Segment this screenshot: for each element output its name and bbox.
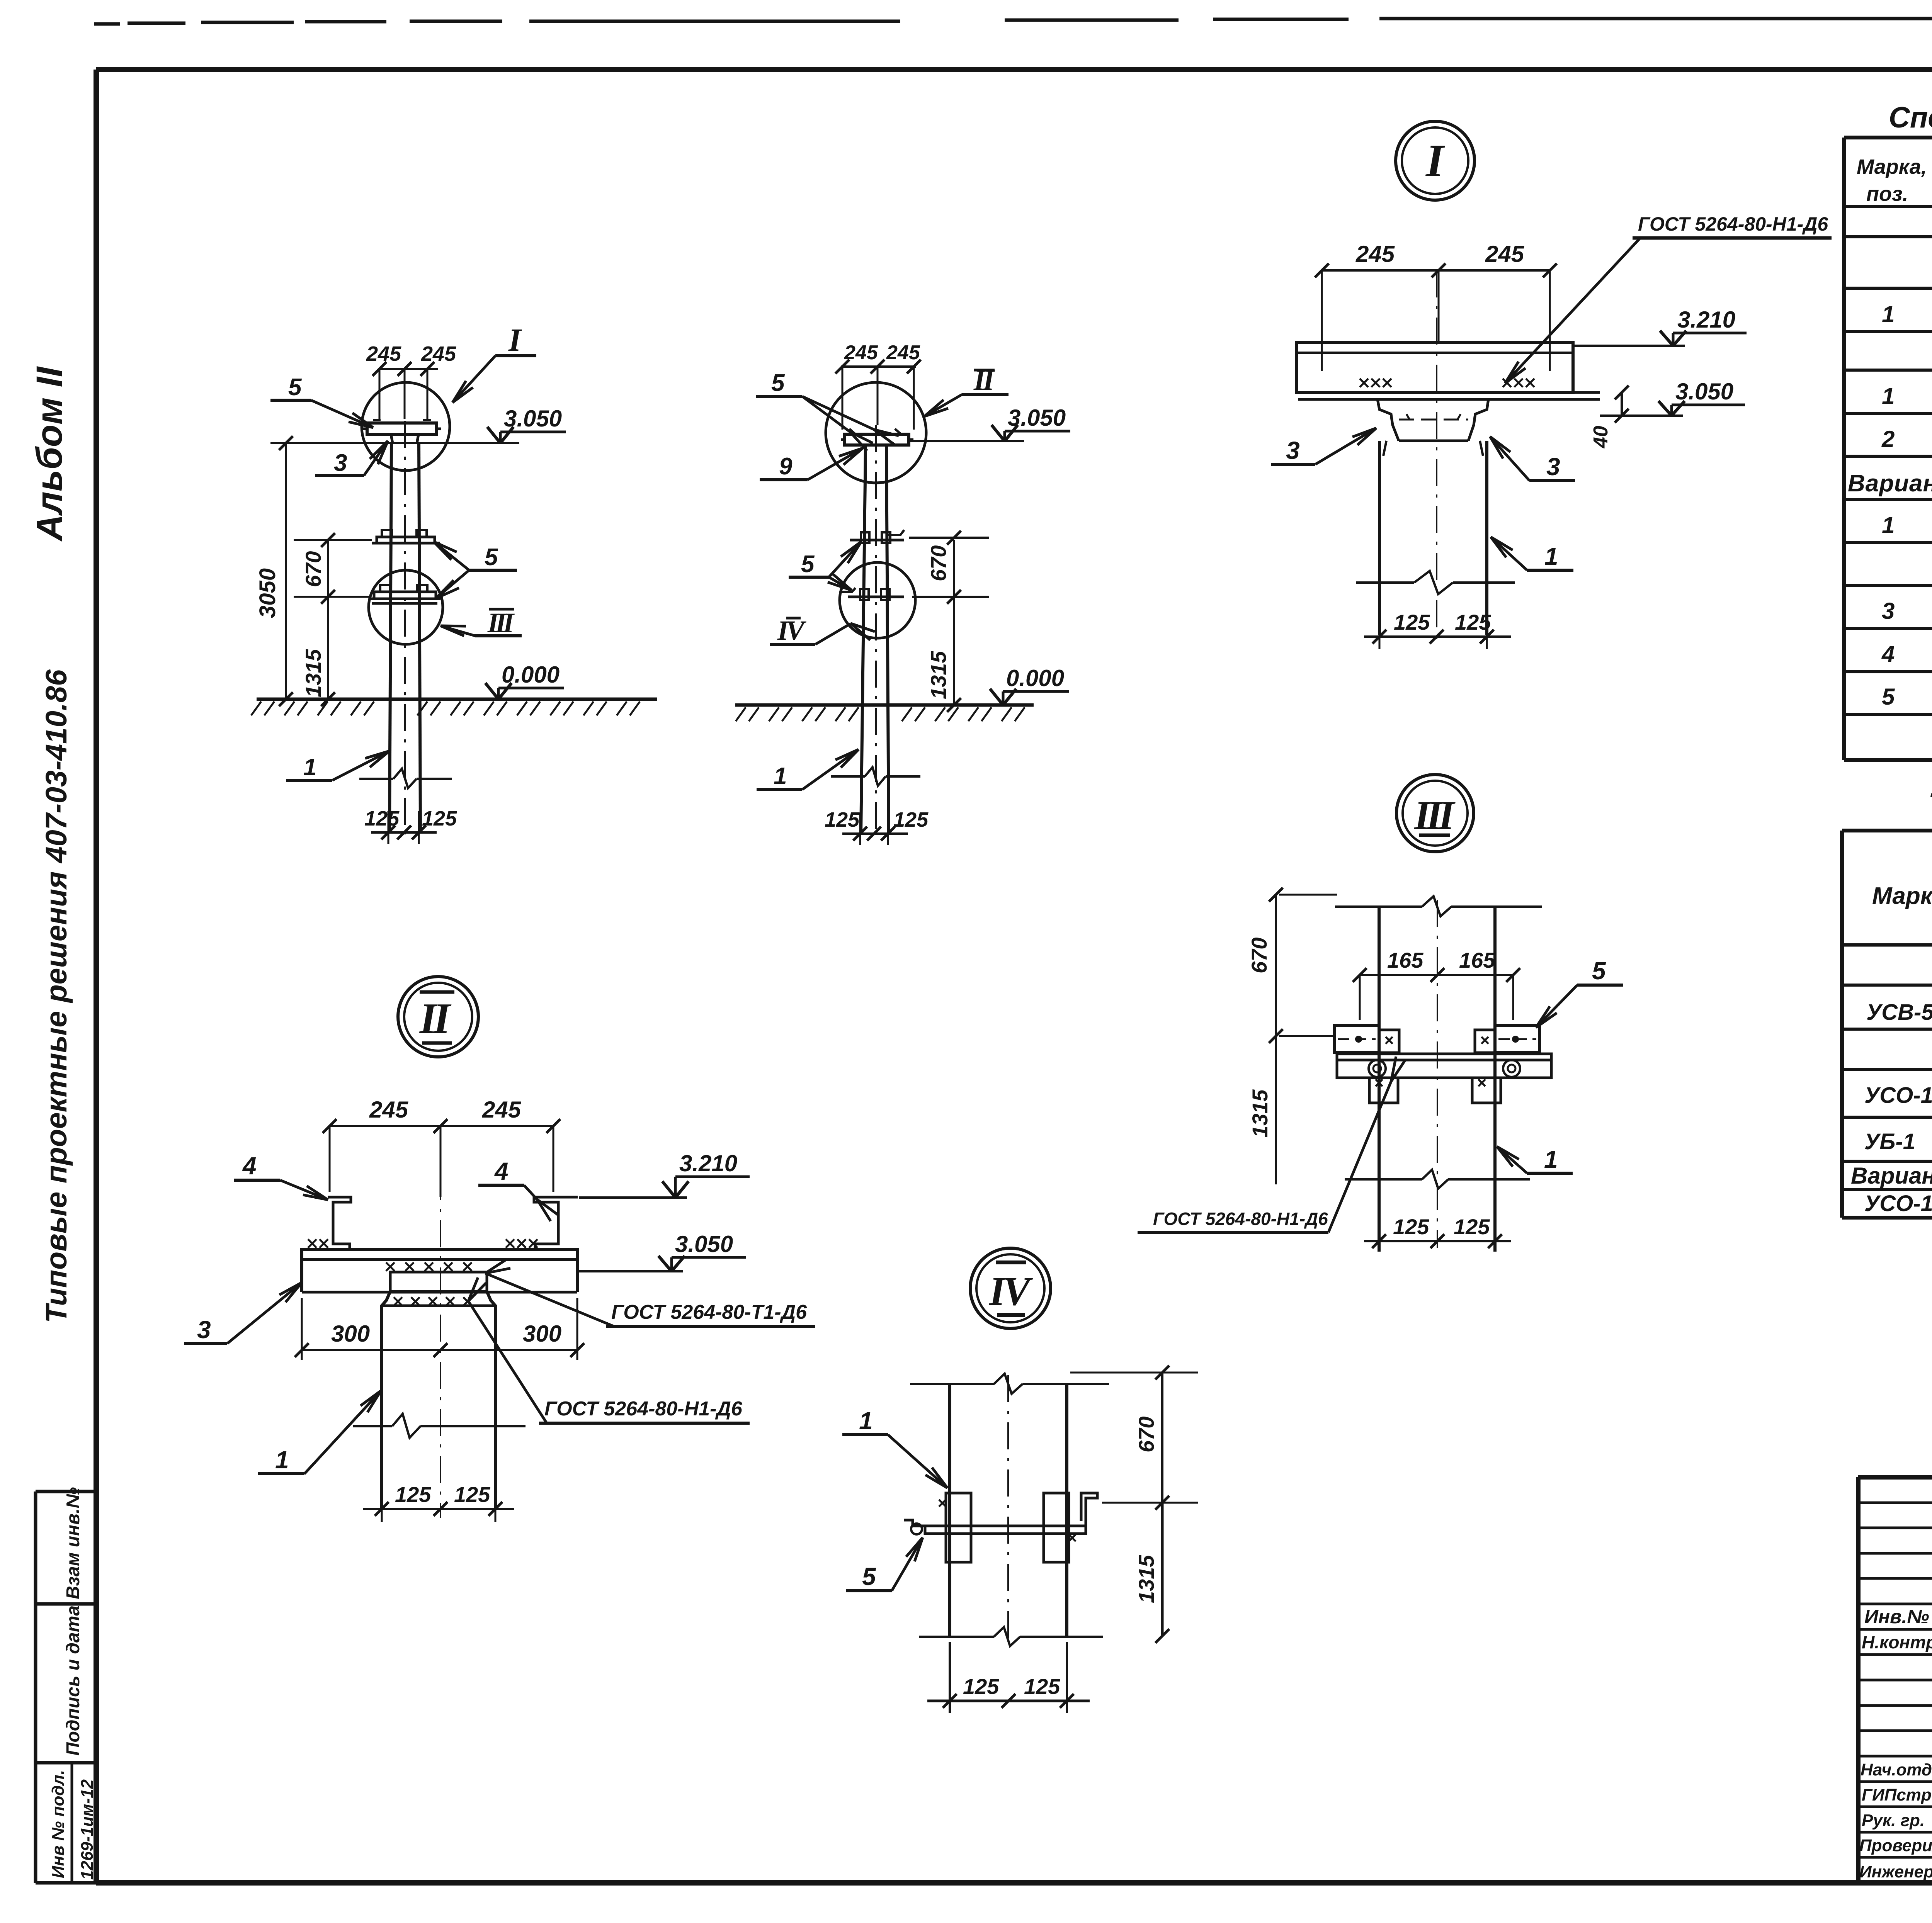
svg-text:125: 125 <box>1455 610 1491 634</box>
pole 2 view circle II <box>826 382 926 483</box>
svg-text:125: 125 <box>893 808 929 831</box>
svg-text:125: 125 <box>454 1482 490 1507</box>
svg-text:Альбом II: Альбом II <box>29 366 70 542</box>
pole 2 level 0.000 <box>990 665 1069 705</box>
svg-text:3.210: 3.210 <box>1677 307 1735 333</box>
svg-text:125: 125 <box>1393 1215 1429 1239</box>
svg-text:4: 4 <box>1881 641 1895 667</box>
svg-text:9: 9 <box>779 453 793 480</box>
svg-text:3: 3 <box>1882 598 1895 624</box>
detail IV dimension 125+125 <box>927 1642 1090 1713</box>
specification table grid <box>1844 138 1932 760</box>
detail III strap <box>1337 1054 1551 1078</box>
svg-text:УСВ-5А: УСВ-5А <box>1866 1000 1932 1025</box>
svg-text:5: 5 <box>1592 957 1606 985</box>
svg-text:1: 1 <box>303 754 316 781</box>
detail IV dimension 670 <box>1070 1366 1198 1510</box>
detail IV position label 1 <box>842 1407 947 1488</box>
fixing table rows USO-1A / UB-1 <box>1864 1081 1932 1154</box>
svg-text:125: 125 <box>422 807 457 830</box>
detail III position label 5 <box>1536 957 1623 1028</box>
detail III hanger plates <box>1369 1078 1501 1103</box>
title block row Proveril Kuleshova <box>1859 1835 1932 1855</box>
detail III dimension 1315 <box>1248 1036 1276 1184</box>
svg-text:2: 2 <box>1881 426 1895 452</box>
detail I position label 1 <box>1491 537 1573 570</box>
title block outer frame <box>1858 1477 1932 1883</box>
svg-text:125: 125 <box>1454 1215 1490 1239</box>
pole 1 shaft (stoika) <box>389 421 420 834</box>
detail IV top break mark <box>910 1374 1109 1394</box>
detail I dimension 40 <box>1590 386 1629 448</box>
spec table row: Stoika USO-1A (kotlovan) <box>1882 512 1932 538</box>
svg-text:1: 1 <box>859 1407 873 1435</box>
detail II weld x-marks top <box>308 1239 537 1271</box>
detail I weld x-marks on flange <box>1360 379 1534 387</box>
detail I level 3.050 <box>1600 379 1745 416</box>
detail II lower plate with welds <box>390 1272 487 1306</box>
title block row Inzhener Pankrateva <box>1859 1862 1932 1881</box>
title block left signature grid <box>1858 1477 1932 1883</box>
svg-text:1: 1 <box>1544 1145 1558 1173</box>
spec table row: Podnozhnik UB-1 <box>1881 426 1932 452</box>
svg-text:ГОСТ 5264-80-Н1-Д6: ГОСТ 5264-80-Н1-Д6 <box>1153 1209 1328 1229</box>
svg-text:1: 1 <box>275 1446 289 1474</box>
detail III weld note GOST 5264-80-N1-D6 <box>1138 1057 1405 1232</box>
pole 1 detail label III <box>440 607 522 638</box>
svg-text:125: 125 <box>1024 1674 1060 1699</box>
detail III bubble <box>1396 775 1474 852</box>
svg-text:III: III <box>1413 793 1456 838</box>
pole 1 dimension 670 <box>294 533 372 604</box>
detail II left channel (mark TMO-24) <box>328 1197 351 1249</box>
torn sheet top edge line <box>94 19 1932 24</box>
svg-text:670: 670 <box>1247 938 1271 973</box>
svg-text:245: 245 <box>1355 241 1395 267</box>
svg-text:3050: 3050 <box>255 568 280 618</box>
svg-text:5: 5 <box>1882 684 1895 710</box>
pole 1 dimension 245+245 <box>366 342 456 421</box>
title block row GIPstr Parfenov <box>1862 1784 1932 1804</box>
pole 1 dimension 125+125 <box>364 807 457 844</box>
detail IV position label 5 <box>846 1537 923 1591</box>
pole 1 level 3.050 <box>270 406 566 443</box>
detail II position label 3 <box>184 1283 302 1344</box>
svg-text:5: 5 <box>771 370 785 396</box>
svg-text:Марка: Марка <box>1872 883 1932 909</box>
pole 2 detail label II <box>924 364 1009 416</box>
detail II dimension 125+125 <box>363 1482 514 1522</box>
pole 1 dimension 1315 <box>301 597 335 706</box>
margin stamp boxes <box>36 1492 96 1883</box>
detail III left clamp plate (mark TMO-113) <box>1335 1025 1399 1053</box>
pole 1 buried part break mark <box>359 769 452 788</box>
svg-text:125: 125 <box>963 1674 999 1699</box>
svg-text:0.000: 0.000 <box>1006 665 1064 691</box>
pole 2 cap plate <box>841 429 913 447</box>
detail I dimension 125+125 <box>1364 610 1511 649</box>
svg-text:125: 125 <box>825 808 860 831</box>
svg-text:Подпись и дата: Подпись и дата <box>63 1605 83 1756</box>
pole 2 dimension 245+245 <box>835 341 921 430</box>
svg-text:670: 670 <box>1134 1417 1158 1452</box>
svg-text:I: I <box>508 322 522 358</box>
detail I column shaft <box>1379 270 1487 641</box>
svg-text:245: 245 <box>844 341 878 364</box>
svg-text:5: 5 <box>862 1563 876 1590</box>
fixing table header texts <box>1872 842 1932 943</box>
pole 2 dimension 1315 <box>926 597 961 712</box>
svg-text:300: 300 <box>523 1321 561 1347</box>
svg-text:ГИПстр: ГИПстр <box>1862 1785 1932 1804</box>
detail II column with flare <box>382 1126 495 1518</box>
pole 2 position label 1 <box>757 749 859 790</box>
svg-text:1315: 1315 <box>301 649 325 697</box>
pole 1 view circle I <box>362 382 450 471</box>
svg-text:165: 165 <box>1387 948 1423 972</box>
svg-text:245: 245 <box>369 1097 409 1123</box>
svg-text:Нач.отд.: Нач.отд. <box>1861 1760 1932 1779</box>
svg-text:245: 245 <box>482 1097 522 1123</box>
detail IV dimension 1315 <box>1134 1503 1169 1643</box>
detail II dimension 300+300 <box>295 1298 584 1360</box>
detail IV side plates <box>939 1493 1076 1562</box>
detail III bottom break mark <box>1345 1170 1530 1189</box>
svg-text:125: 125 <box>1394 610 1430 634</box>
svg-text:4: 4 <box>242 1152 257 1180</box>
pole 2 position label 9 <box>760 448 863 480</box>
svg-text:Вариант из стойки, установленн: Вариант из стойки, установленной в сверл… <box>1848 470 1932 497</box>
detail I column head <box>1378 399 1488 441</box>
detail II position label 4 (left) <box>234 1152 328 1200</box>
svg-text:5: 5 <box>801 551 815 578</box>
detail IV bubble <box>970 1248 1051 1328</box>
detail I position label 3 (right) <box>1490 437 1575 481</box>
svg-text:3: 3 <box>1286 437 1300 464</box>
detail II weld note GOST 5264-80-N1-D6 <box>468 1277 750 1423</box>
detail III dimension 165+165 <box>1353 948 1520 1020</box>
svg-text:поз.: поз. <box>1866 182 1908 206</box>
svg-text:670: 670 <box>926 545 951 581</box>
svg-text:Н.контр.: Н.контр. <box>1862 1632 1932 1652</box>
svg-text:Инженер: Инженер <box>1859 1862 1932 1881</box>
svg-text:1: 1 <box>1882 383 1895 409</box>
pole 2 upper angle bracket <box>850 530 904 543</box>
pole 1 cap plate (mark TMO-4) <box>363 420 441 443</box>
pole 1 position label 3 <box>315 441 388 476</box>
svg-text:УСО-1А: УСО-1А <box>1864 1191 1932 1216</box>
pole 2 lower angle bracket <box>840 588 904 600</box>
svg-text:Рук. гр.: Рук. гр. <box>1862 1811 1925 1830</box>
svg-text:125: 125 <box>364 807 400 830</box>
pole 1 position label 5 <box>270 374 373 428</box>
svg-text:245: 245 <box>421 342 456 365</box>
detail II dimension 245+245 <box>323 1097 560 1197</box>
pole 2 buried part break mark <box>831 767 920 786</box>
svg-text:Проверил: Проверил <box>1859 1836 1932 1855</box>
spec table row: Stoika USO-1A <box>1882 383 1932 409</box>
spec table row: Svaya USV-5A <box>1882 301 1932 327</box>
fixing table row USO-1A kotlovan <box>1864 1191 1932 1216</box>
svg-text:165: 165 <box>1459 948 1495 972</box>
spec table row: Marka TMO-4 <box>1882 598 1932 624</box>
svg-text:Инв.№: Инв.№ <box>1864 1606 1929 1627</box>
detail II level 3.050 <box>577 1231 746 1271</box>
pole 2 level 3.050 <box>909 405 1070 441</box>
fixing table grid <box>1842 831 1932 1218</box>
svg-text:1269-1им-12: 1269-1им-12 <box>78 1779 97 1880</box>
svg-text:4: 4 <box>494 1157 509 1185</box>
pole 1 upper bracket (mark TMO-113) <box>372 530 440 543</box>
detail II break mark <box>353 1414 526 1438</box>
svg-text:IV: IV <box>988 1269 1033 1314</box>
pole 2 dimension 125+125 <box>825 808 929 845</box>
detail I dimension 245+245 <box>1315 241 1557 371</box>
detail III dimension 125+125 <box>1364 1215 1511 1248</box>
pole 2 shaft (svaya USV-5A) <box>861 425 889 834</box>
svg-text:УСО-1А: УСО-1А <box>1864 1083 1932 1108</box>
svg-text:Марка,: Марка, <box>1857 155 1927 178</box>
ground line at pole 2 <box>735 705 1034 721</box>
detail II top plate <box>302 1249 577 1292</box>
svg-text:IV: IV <box>777 615 806 646</box>
detail II weld note GOST 5264-80-T1-D6 <box>485 1259 815 1327</box>
title block row Ruk.gr Kirsanova <box>1862 1810 1932 1830</box>
svg-text:3: 3 <box>1546 453 1560 481</box>
ground line at pole 1 <box>251 699 657 715</box>
detail I weld note GOST 5264-80-N1-D6 <box>1505 213 1832 383</box>
detail II level 3.210 <box>579 1150 750 1198</box>
svg-text:1: 1 <box>774 763 787 790</box>
detail III right clamp plate (mark TMO-113) <box>1475 1025 1539 1053</box>
pole 2 dimension 670 <box>909 531 989 604</box>
detail I position label 3 (left) <box>1271 428 1376 464</box>
svg-text:1315: 1315 <box>1134 1555 1158 1603</box>
svg-text:Вариант из стойки, установленн: Вариант из стойки, установленной в сверл… <box>1851 1163 1932 1189</box>
svg-text:1: 1 <box>1882 512 1895 538</box>
svg-text:1315: 1315 <box>1248 1089 1272 1138</box>
svg-text:1315: 1315 <box>926 651 951 699</box>
pole 1 dimension 3050 <box>255 436 293 706</box>
specification table header texts <box>1857 155 1932 206</box>
detail III dimension 670 <box>1247 888 1337 1043</box>
pole 1 lower bracket (mark TMO-113) <box>369 585 440 603</box>
detail II position label 4 (right) <box>478 1157 558 1221</box>
fixing table row USV-5A <box>1866 996 1932 1025</box>
svg-text:5: 5 <box>485 544 498 571</box>
svg-text:Спецификация элементов на о: Спецификация элементов на опору О-110-8 <box>1889 101 1932 134</box>
svg-text:ГОСТ 5264-80-Н1-Д6: ГОСТ 5264-80-Н1-Д6 <box>1638 213 1828 235</box>
svg-text:40: 40 <box>1590 426 1612 448</box>
svg-text:I: I <box>1425 135 1446 186</box>
detail II right channel (mark TMO-24) <box>534 1197 578 1249</box>
title block row Nach.otd Romenskoi <box>1861 1760 1932 1779</box>
svg-text:Типовые проектные решения 4: Типовые проектные решения 407-03-410.86 <box>40 669 73 1323</box>
detail IV column <box>950 1375 1067 1646</box>
svg-text:5: 5 <box>288 374 302 401</box>
svg-text:УБ-1: УБ-1 <box>1864 1129 1915 1154</box>
svg-text:245: 245 <box>1485 241 1525 267</box>
pole 2 position label 5 (cap) <box>756 370 899 451</box>
svg-text:3: 3 <box>334 450 347 476</box>
title block row N.kontr Kovalev <box>1862 1630 1932 1652</box>
svg-text:1: 1 <box>1544 542 1558 570</box>
svg-text:Инв № подл.: Инв № подл. <box>49 1770 68 1878</box>
pole 1 detail label I <box>452 322 536 403</box>
detail I beam body (mark TMO-24) <box>1297 342 1600 399</box>
detail I break mark <box>1356 571 1515 594</box>
pole 2 view circle IV <box>840 562 915 638</box>
pole 1 view circle III <box>369 570 443 644</box>
svg-text:ГОСТ 5264-80-Н1-Д6: ГОСТ 5264-80-Н1-Д6 <box>544 1398 743 1420</box>
pole 2 detail label IV <box>770 615 875 646</box>
detail I bubble <box>1396 121 1475 200</box>
svg-text:ГОСТ 5264-80-Т1-Д6: ГОСТ 5264-80-Т1-Д6 <box>611 1301 807 1323</box>
detail I level 3.210 <box>1573 307 1747 346</box>
detail II position label 1 <box>258 1391 381 1474</box>
svg-text:II: II <box>419 995 452 1043</box>
pole 1 position label 5 (brackets) <box>434 542 517 598</box>
svg-text:Таблица закреплений опоры в: Таблица закреплений опоры в грунте <box>1928 787 1932 823</box>
svg-text:670: 670 <box>301 551 325 587</box>
detail II bubble <box>398 977 478 1057</box>
spec table row: Marka TMO-113 <box>1882 684 1932 710</box>
svg-text:300: 300 <box>331 1321 370 1347</box>
svg-text:245: 245 <box>886 341 920 364</box>
pole 1 position label 1 <box>286 751 389 781</box>
pole 2 position label 5 (brackets) <box>789 542 861 590</box>
detail III top break mark <box>1335 896 1542 916</box>
detail III column <box>1379 900 1495 1252</box>
svg-text:125: 125 <box>395 1482 431 1507</box>
pole 1 level 0.000 <box>485 662 564 699</box>
detail IV bottom break mark <box>919 1627 1103 1646</box>
svg-text:245: 245 <box>366 342 401 365</box>
svg-text:Взам инв.№: Взам инв.№ <box>63 1487 83 1599</box>
svg-text:3.210: 3.210 <box>679 1150 737 1176</box>
detail IV strap and end bracket <box>904 1493 1097 1534</box>
svg-text:1: 1 <box>1882 301 1895 327</box>
spec table row: Marka TMO-24 <box>1881 641 1932 667</box>
svg-text:3: 3 <box>197 1316 211 1344</box>
detail III position label 1 <box>1497 1145 1573 1173</box>
svg-text:3.050: 3.050 <box>675 1231 733 1257</box>
